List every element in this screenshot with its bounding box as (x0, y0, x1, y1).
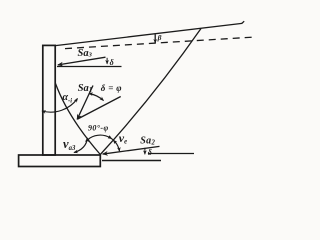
arc theta-a3 (74, 138, 88, 153)
force arrow Sa1 (77, 86, 93, 120)
slip plane line (from heel to ground surface) (100, 29, 201, 155)
svg-text:va3: va3 (63, 137, 76, 152)
ground line end tick (242, 21, 245, 23)
svg-text:δ = φ: δ = φ (101, 83, 122, 93)
svg-text:90°-φ: 90°-φ (88, 124, 109, 133)
inner slip plane from wall back to heel (56, 84, 101, 155)
wall footing (base slab) (19, 155, 101, 167)
svg-text:Sa2: Sa2 (140, 135, 155, 146)
force arrow Sa3 (58, 57, 106, 65)
svg-text:ve: ve (119, 131, 127, 146)
small delta arrow at Sa3 (106, 58, 108, 64)
retaining wall stem (43, 45, 55, 155)
svg-text:Sa3: Sa3 (78, 48, 93, 59)
svg-text:δ: δ (148, 148, 152, 157)
horizontal reference for delta at Sa3 (57, 66, 122, 68)
double arrowheads at slip line crossing (108, 135, 112, 139)
dashed horizontal reference line (65, 37, 252, 48)
svg-text:α-i: α-i (63, 92, 73, 105)
force arrow Sa2 (103, 146, 160, 154)
horizontal reference for delta at Sa2 (148, 153, 194, 155)
ground surface line (backfill slope beta) (56, 23, 243, 45)
normal reference line for delta=phi (78, 97, 121, 120)
arc alpha-i at wall back (42, 99, 78, 113)
angle beta arrow (154, 34, 156, 43)
svg-text:δ: δ (110, 58, 114, 67)
svg-text:Sa1: Sa1 (78, 83, 93, 94)
svg-text:β: β (157, 33, 162, 42)
ground level line in front of footing (102, 160, 161, 162)
small delta arrow at Sa2 (144, 148, 146, 154)
arc delta=phi (89, 94, 104, 101)
arc 90deg-phi and theta-e (86, 135, 120, 151)
